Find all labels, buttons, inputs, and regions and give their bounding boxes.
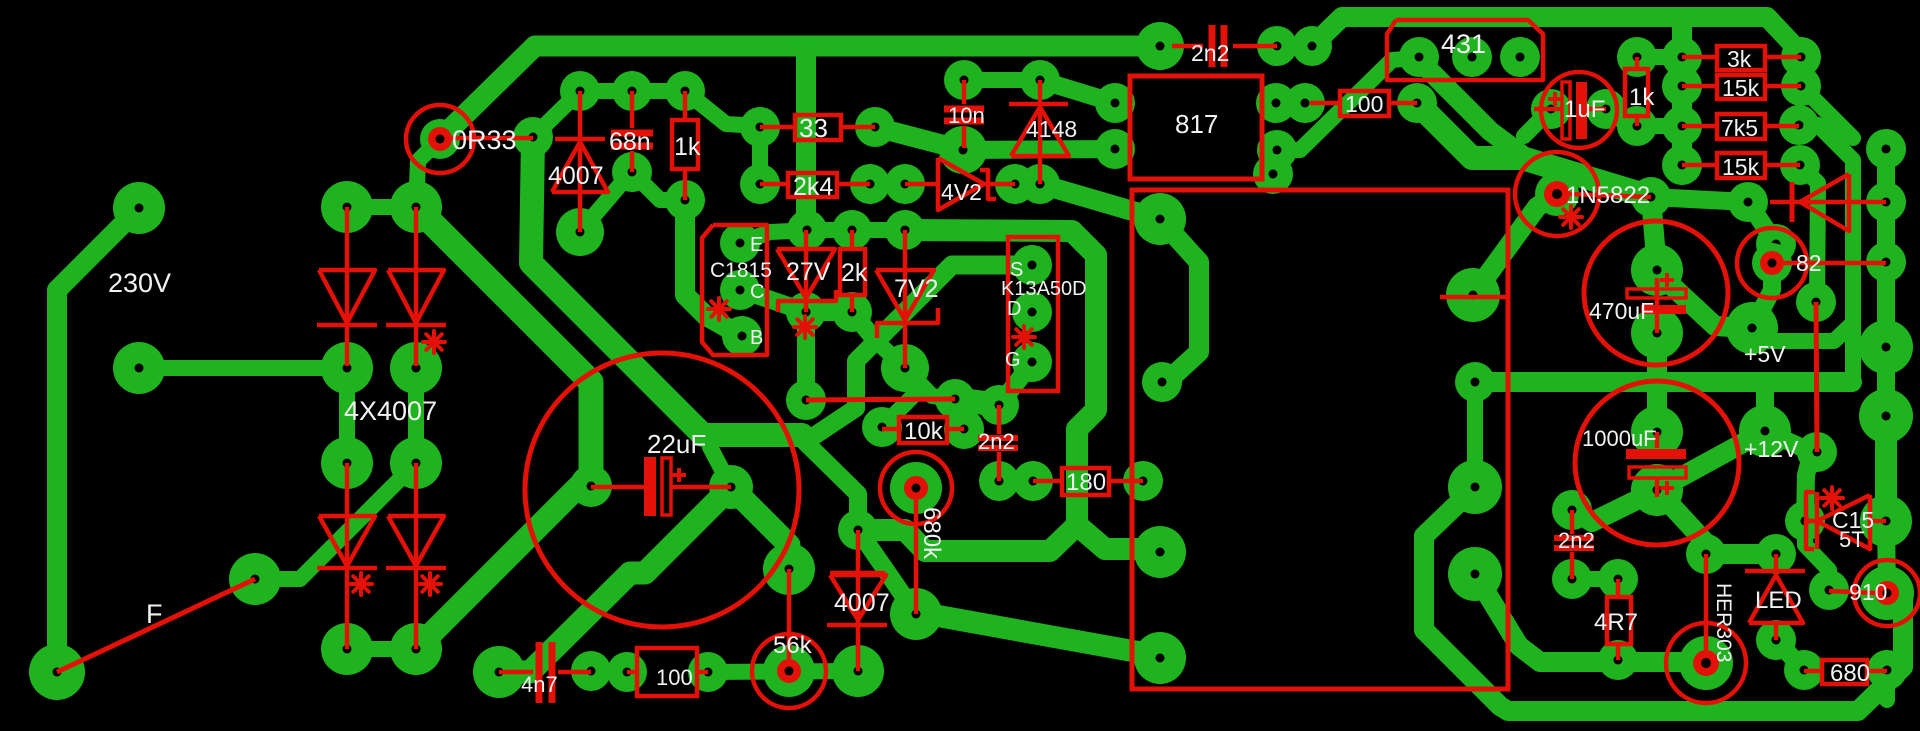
resistor 15k1 box bbox=[1717, 75, 1765, 99]
capacitor 1uF plates bbox=[1562, 82, 1570, 139]
svg-text:100: 100 bbox=[1345, 91, 1383, 117]
wire bridge mid pads verticals bbox=[339, 368, 355, 463]
pad +12V bbox=[1739, 405, 1791, 457]
capacitor 1000uF circle bbox=[1575, 381, 1739, 545]
thyristor C15 5T bbox=[1806, 492, 1814, 549]
resistor 1k box bbox=[672, 120, 698, 169]
svg-text:1000uF: 1000uF bbox=[1582, 426, 1657, 451]
pad bridge CL bbox=[321, 437, 373, 489]
wire 1k bottom feed to B bbox=[685, 200, 742, 336]
diode 4148 bbox=[1038, 80, 1043, 184]
pad 680 right bbox=[1867, 650, 1907, 690]
regulator 431 box bbox=[1387, 20, 1543, 80]
pad 10n bottom bbox=[939, 126, 987, 174]
pad 230V-2 bbox=[113, 342, 165, 394]
wire cluster to K13A50D G bbox=[999, 362, 1032, 405]
wire C1815 C to zener row bbox=[742, 290, 806, 312]
pad cluster a bbox=[935, 379, 975, 419]
pad 817 pin3 bbox=[1257, 130, 1297, 170]
svg-text:4V2: 4V2 bbox=[941, 179, 982, 205]
pad 4V2 left bbox=[885, 164, 925, 204]
pad 1k bottom bbox=[665, 180, 705, 220]
pad 4007b top bbox=[838, 510, 878, 550]
wire junction left branch bbox=[858, 525, 1077, 551]
pad 431-2 bbox=[1452, 37, 1492, 77]
pad C1815 B bbox=[722, 316, 762, 356]
wire node to DG2 horizontal bbox=[808, 341, 876, 440]
svg-text:2n2: 2n2 bbox=[1191, 40, 1229, 66]
wire pad pair 2n2 right bbox=[1277, 38, 1312, 54]
resistor 100b box bbox=[637, 648, 697, 696]
pad 0R33 via bbox=[420, 119, 460, 159]
svg-text:910: 910 bbox=[1849, 579, 1887, 605]
pad bank L4 bbox=[1662, 145, 1702, 185]
pad 82 top bbox=[1756, 224, 1796, 264]
svg-text:680: 680 bbox=[1830, 660, 1870, 687]
capacitor 2n2b symbol bbox=[997, 405, 1002, 434]
wire 1000uF- to +12 pad bbox=[1657, 431, 1765, 490]
pad 2n2b bottom bbox=[979, 461, 1019, 501]
pad 27V bottom bbox=[786, 292, 826, 332]
wire 22uF right V left branch bbox=[499, 487, 731, 672]
wire top rail right section bbox=[1312, 17, 1801, 86]
pad jumper left bbox=[786, 380, 826, 420]
svg-text:33: 33 bbox=[799, 113, 828, 143]
pad mains gnd bbox=[29, 644, 85, 700]
pad row230 c bbox=[885, 210, 925, 250]
pad 817 pin2 bbox=[1095, 129, 1135, 169]
pad bank R4 bbox=[1780, 145, 1820, 185]
wire 1N5822 pad to 82 top bbox=[1651, 197, 1748, 202]
pad 431-1 bbox=[1399, 37, 1439, 77]
capacitor 470uF plates bbox=[1655, 278, 1660, 305]
wire 1k2 top bar bbox=[1637, 49, 1682, 65]
wire zener row bar bbox=[806, 303, 852, 321]
capacitor 68n symbol bbox=[611, 130, 653, 137]
wire zener row to 806-400 bbox=[797, 312, 815, 400]
pad 33 left bbox=[740, 107, 780, 147]
wire riser 470uF- to 1000uF+ bbox=[1647, 333, 1667, 432]
svg-text:180: 180 bbox=[1066, 469, 1106, 496]
jumper silk line bbox=[806, 399, 955, 400]
diode bridge 4X4007 D3 bbox=[345, 463, 350, 649]
pad C1815 E bbox=[720, 223, 760, 263]
wire right col to 910 bbox=[1886, 521, 1887, 593]
capacitor 22uF circle bbox=[525, 353, 799, 627]
svg-text:68n: 68n bbox=[609, 128, 651, 156]
jumper silk right bbox=[1816, 302, 1817, 452]
wire C15 left to 910 left bbox=[1805, 521, 1829, 590]
pad 22uF plus bbox=[709, 465, 753, 509]
pad xfmr pin4 bbox=[1134, 632, 1186, 684]
wire pad 533 up to 580 row bbox=[533, 91, 580, 137]
wire right column lower bbox=[1875, 416, 1897, 521]
svg-text:B: B bbox=[750, 327, 763, 349]
wire 817 right y150 jog bbox=[1277, 58, 1417, 150]
pad 4R7 top bbox=[1598, 559, 1638, 599]
wire P1 diagonal to 22uF left pad bbox=[416, 207, 591, 486]
pad 10k left bbox=[862, 407, 902, 447]
pad bank R3 bbox=[1779, 105, 1819, 145]
wire riser +12 pad bbox=[1756, 385, 1774, 431]
diode 1N5822 circle bbox=[1515, 152, 1599, 236]
pad K13A50D G bbox=[1012, 342, 1052, 382]
svg-text:HER303: HER303 bbox=[1712, 583, 1735, 662]
asterisk C1815 bbox=[708, 307, 730, 311]
asterisk D2 bbox=[423, 340, 445, 344]
pad bank R1 bbox=[1781, 37, 1821, 77]
asterisk D3 bbox=[350, 582, 372, 586]
svg-text:7V2: 7V2 bbox=[894, 275, 938, 303]
pad 68n top bbox=[612, 71, 652, 111]
svg-text:10k: 10k bbox=[904, 418, 944, 445]
svg-text:470uF: 470uF bbox=[1589, 298, 1654, 324]
wire 680 right down to rail bbox=[1879, 670, 1895, 700]
pad 4007a bottom bbox=[556, 208, 604, 256]
pad 4148 top bbox=[1020, 60, 1060, 100]
wire bridge bottom pads bar bbox=[347, 641, 416, 657]
wire 1uF right to 1k2 bottom bbox=[1606, 109, 1637, 126]
wire +12 pad to C15 left bbox=[1765, 431, 1812, 521]
pad 680k top bbox=[890, 462, 942, 514]
pad fuse bbox=[229, 553, 281, 605]
svg-text:E: E bbox=[750, 234, 763, 256]
pad 4007b bottom bbox=[832, 645, 884, 697]
pad 4148 bottom bbox=[1020, 164, 1060, 204]
wire pin7 to output branch bbox=[1475, 574, 1700, 662]
svg-text:2n2: 2n2 bbox=[978, 429, 1015, 454]
wire pin6 to bottom rail bbox=[1424, 487, 1903, 711]
wire 817 right pads bar1 bbox=[1276, 95, 1305, 111]
resistor 10k box bbox=[899, 417, 947, 443]
svg-text:C: C bbox=[750, 281, 764, 303]
pad colR 1 bbox=[1866, 129, 1906, 169]
wire top AC rail to 0R33 bbox=[440, 46, 1160, 139]
svg-text:4n7: 4n7 bbox=[521, 672, 558, 697]
wire row230 to junction vertical bbox=[905, 230, 1096, 525]
pad LED top bbox=[1756, 534, 1796, 574]
svg-text:4007: 4007 bbox=[834, 589, 890, 617]
pad 1uF right bbox=[1586, 89, 1626, 129]
capacitor 2n2c symbol bbox=[1570, 510, 1575, 534]
pad 470uF minus bbox=[1631, 307, 1683, 359]
pad 56k top bbox=[763, 543, 815, 595]
resistor 33 box bbox=[795, 115, 841, 140]
wire 82 chain bbox=[1748, 202, 1776, 330]
pad 680k bottom bbox=[890, 588, 942, 640]
zener 4V2 bbox=[905, 182, 938, 187]
wire 470uF+ to +5V pad bbox=[1657, 272, 1750, 328]
pad 180 right bbox=[1123, 461, 1163, 501]
pad 100a right bbox=[1397, 83, 1437, 123]
resistor 3k box bbox=[1717, 46, 1765, 70]
svg-text:15k: 15k bbox=[1722, 75, 1760, 101]
pad 230V-1 bbox=[113, 182, 165, 234]
pad 100b left bbox=[607, 652, 647, 692]
svg-text:817: 817 bbox=[1175, 109, 1218, 139]
pad 817 pin4 bbox=[1256, 83, 1296, 123]
diode LED bbox=[1774, 554, 1779, 571]
pad xfmr pin6 bbox=[1448, 460, 1502, 514]
pad 100a left bbox=[1285, 83, 1325, 123]
pad 4007a top bbox=[560, 71, 600, 111]
wire 4007b to 680k pad bbox=[858, 530, 916, 614]
resistor 910 circle bbox=[1854, 560, 1920, 626]
resistor 100a box bbox=[1340, 91, 1389, 116]
wire 760 pads vertical bbox=[752, 127, 768, 184]
wire 1000uF- to HER303 top bbox=[1657, 490, 1706, 554]
wire 3k-15k right pads bar bbox=[1793, 53, 1809, 86]
pad bridge TL bbox=[321, 181, 373, 233]
svg-text:LED: LED bbox=[1755, 587, 1802, 614]
wire 4148 to 817 pin bbox=[1040, 80, 1115, 103]
wire 4V2 pads to transformer pin1 bbox=[1040, 184, 1160, 219]
svg-text:1k: 1k bbox=[1629, 84, 1655, 111]
pad spare bbox=[1253, 154, 1293, 194]
svg-text:4R7: 4R7 bbox=[1594, 609, 1638, 636]
pad bank R2 bbox=[1781, 66, 1821, 106]
pad 4V2 right bbox=[995, 164, 1035, 204]
svg-text:F: F bbox=[146, 599, 163, 629]
pad row230 a bbox=[787, 210, 827, 250]
wire 10n bottom to 817 pin bbox=[963, 149, 1115, 150]
svg-text:7k5: 7k5 bbox=[1721, 115, 1758, 141]
pad bridge TR bbox=[390, 181, 442, 233]
pad 2n2c bottom bbox=[1552, 559, 1592, 599]
wire 230V second input horizontal bbox=[139, 360, 347, 376]
pad bank L2 bbox=[1662, 66, 1702, 106]
diode bridge 4X4007 D1 bbox=[345, 207, 350, 366]
svg-text:C1815: C1815 bbox=[710, 259, 772, 282]
capacitor 2n2a symbol bbox=[1172, 44, 1203, 49]
wire 15k2 chain down bbox=[1800, 165, 1818, 302]
pad jr top bbox=[1796, 282, 1836, 322]
resistor 2k4 box bbox=[788, 173, 837, 197]
diode 4007a bbox=[578, 91, 583, 232]
wire 15k1 to column bbox=[1801, 86, 1853, 138]
pad bridge MR bbox=[390, 342, 442, 394]
resistor 82 circle bbox=[1737, 228, 1807, 298]
pad bank L3 bbox=[1662, 106, 1702, 146]
resistor 4R7 box bbox=[1607, 597, 1631, 644]
pad bridge BR bbox=[390, 623, 442, 675]
zener 7V2 bbox=[903, 230, 908, 368]
wire 230V input diagonal+vertical bbox=[57, 208, 139, 660]
resistor 1k2 box bbox=[1625, 69, 1648, 116]
svg-text:2n2: 2n2 bbox=[1558, 528, 1595, 553]
pad 1k2 top bbox=[1617, 37, 1657, 77]
asterisk K13A50D bbox=[1013, 335, 1035, 339]
wire junction right branch bbox=[1077, 525, 1160, 552]
wire DG2 long ground diagonal bbox=[531, 137, 802, 435]
capacitor 22uF plates bbox=[644, 457, 656, 516]
pad +5V bbox=[1726, 302, 1778, 354]
svg-text:D: D bbox=[1007, 298, 1021, 320]
wire diagonal 431 pad down bbox=[1417, 58, 1522, 155]
pad 10n top bbox=[944, 60, 984, 100]
pad row230 b bbox=[832, 210, 872, 250]
wire 7V2 pad to node bbox=[876, 341, 905, 368]
pad 1000uF plus bbox=[1631, 406, 1683, 458]
pad 680 left bbox=[1784, 650, 1824, 690]
resistor 2k box bbox=[840, 249, 865, 295]
svg-text:1k: 1k bbox=[674, 133, 701, 161]
pad bridge BL bbox=[321, 623, 373, 675]
wire bridge D2 pad to 22uF left vertical bbox=[416, 474, 591, 649]
pad 4n7 right bbox=[571, 651, 611, 691]
svg-text:K13A50D: K13A50D bbox=[1001, 278, 1087, 300]
pad 1N5822 anode bbox=[1535, 172, 1579, 216]
svg-text:G: G bbox=[1005, 349, 1021, 371]
pad 4R7 bottom bbox=[1598, 640, 1638, 680]
pad bank L1 bbox=[1662, 37, 1702, 77]
pad 1uF left bbox=[1531, 89, 1571, 129]
wire LED bottom to 680 left bbox=[1776, 640, 1804, 670]
pad xfmr pin7 bbox=[1448, 547, 1502, 601]
wire 4n7 pads bar bbox=[591, 671, 627, 672]
wire 685 to 760 jog bbox=[685, 91, 760, 126]
svg-text:22uF: 22uF bbox=[647, 429, 706, 459]
wire 580-232 to 68n bottom bbox=[580, 172, 632, 232]
svg-text:2k: 2k bbox=[841, 259, 868, 287]
pad 431-3 bbox=[1500, 37, 1540, 77]
pad 2n2a right bbox=[1257, 26, 1297, 66]
wire S-pad chain to node bbox=[876, 265, 1032, 341]
svg-text:230V: 230V bbox=[108, 268, 171, 298]
optocoupler 817 box bbox=[1130, 76, 1262, 179]
pad 22uF minus bbox=[570, 465, 612, 507]
wire pad row y230 bbox=[740, 230, 812, 243]
resistor 7k5 box bbox=[1717, 114, 1765, 139]
pad 10k right bbox=[944, 409, 984, 449]
capacitor 4n7 symbol bbox=[499, 670, 533, 675]
wire 1000uF- to 2n2c top bbox=[1572, 490, 1657, 522]
zener 27V bbox=[804, 230, 809, 312]
wire 1N5822 pad to 470uF+ bbox=[1651, 197, 1657, 270]
svg-text:100: 100 bbox=[656, 665, 693, 690]
asterisk D4 bbox=[419, 582, 441, 586]
pad 2k4 left bbox=[740, 164, 780, 204]
pad C1815 C bbox=[720, 270, 760, 310]
pad 0R33 right bbox=[513, 117, 553, 157]
pad K13A50D S bbox=[1012, 245, 1052, 285]
pad n1 bbox=[1631, 177, 1671, 217]
svg-text:15k: 15k bbox=[1722, 154, 1760, 180]
resistor 680 box bbox=[1822, 660, 1867, 684]
pad 68n bottom bbox=[612, 152, 652, 192]
fuse 0R33 circle bbox=[406, 105, 474, 173]
svg-text:0R33: 0R33 bbox=[452, 125, 517, 155]
diode bridge 4X4007 D4 bbox=[414, 463, 419, 649]
pad 1k2 bottom bbox=[1617, 106, 1657, 146]
pad jr bottom bbox=[1797, 432, 1837, 472]
wire 180 pads bar bbox=[999, 473, 1033, 489]
pad bridge ML bbox=[321, 342, 373, 394]
pad n2 bbox=[1728, 182, 1768, 222]
wire 10n top bar bbox=[964, 72, 1040, 88]
resistor 680k circle bbox=[880, 452, 952, 524]
resistor 180 box bbox=[1062, 468, 1109, 495]
transistor C1815 outline bbox=[702, 225, 767, 355]
pad top rail bbox=[1292, 26, 1332, 66]
pad xfmr pin2 bbox=[1142, 362, 1182, 402]
svg-text:10n: 10n bbox=[948, 103, 985, 128]
wire HER303 top to LED top bbox=[1706, 544, 1776, 564]
diode 4007b bbox=[856, 530, 861, 671]
pad HER303 top bbox=[1686, 534, 1726, 574]
transformer box bbox=[1132, 190, 1508, 689]
wire F silk bbox=[57, 579, 255, 672]
resistor 56k circle bbox=[752, 634, 826, 708]
capacitor 1uF circle bbox=[1541, 72, 1617, 148]
pad C15 left bbox=[1785, 501, 1825, 541]
pad colR 4 bbox=[1859, 320, 1913, 374]
wire branch DG2 down to 4007b bbox=[800, 437, 858, 530]
diode HER303 circle bbox=[1666, 623, 1746, 703]
pad 7V2 bottom bbox=[881, 344, 929, 392]
wire big diagonal 100 to 1N5822 bbox=[1417, 103, 1651, 197]
diode top right bbox=[1790, 182, 1795, 222]
wire 7k5 chain to +5V bbox=[1799, 125, 1853, 382]
pad colR 3 bbox=[1866, 242, 1906, 282]
wire cluster bars bbox=[955, 399, 999, 405]
asterisk 1N5822 bbox=[1560, 215, 1582, 219]
wire 882 stub bbox=[882, 393, 916, 427]
pad xfmr pin1 bbox=[1134, 193, 1186, 245]
pad cluster b bbox=[979, 385, 1019, 425]
wire 68n bottom to 1k bottom bbox=[632, 172, 685, 200]
wire transformer right col bbox=[1467, 382, 1483, 487]
pad xfmr pin5 bbox=[1446, 268, 1500, 322]
svg-text:27V: 27V bbox=[786, 258, 831, 286]
pad 82 left bbox=[1752, 243, 1792, 283]
wire 100 to 56k to 4007b row bbox=[708, 671, 858, 672]
pad colR 5 bbox=[1859, 389, 1913, 443]
pad 470uF plus bbox=[1631, 244, 1683, 296]
svg-text:+5V: +5V bbox=[1744, 341, 1786, 367]
wire 7V2 pad to cluster bbox=[905, 368, 955, 399]
pad 910 right bbox=[1860, 566, 1914, 620]
svg-text:4X4007: 4X4007 bbox=[344, 396, 437, 426]
wire secondary rail y382 bbox=[1475, 372, 1852, 392]
wire pin5 to 1N5822 bbox=[1473, 196, 1553, 295]
wire transformer pin1 to pin2 bbox=[1160, 219, 1199, 385]
svg-text:680k: 680k bbox=[918, 507, 945, 560]
wire resistor bank left column bbox=[1672, 17, 1692, 165]
wire vertical branch x=806 bbox=[796, 46, 816, 230]
wire bridge top pads bar bbox=[347, 199, 416, 215]
svg-text:4148: 4148 bbox=[1026, 116, 1077, 142]
wire column branch to +5V bbox=[1752, 323, 1853, 341]
wire 22uF right V right branch bbox=[731, 487, 789, 569]
wire 1uF left pad diagonal bbox=[1524, 109, 1551, 136]
wire right column x1886 bbox=[1877, 149, 1895, 521]
diode bridge 4X4007 D2 bbox=[414, 207, 419, 366]
pad xfmr pin3 bbox=[1134, 526, 1186, 578]
pad C15 right bbox=[1860, 495, 1912, 547]
pad 100b right bbox=[688, 652, 728, 692]
pad 2k4 right bbox=[850, 164, 890, 204]
pad 817 pin1 bbox=[1095, 83, 1135, 123]
pad HER303 bottom bbox=[1679, 636, 1733, 690]
pad 2n2c top bbox=[1552, 490, 1592, 530]
svg-text:2k4: 2k4 bbox=[793, 173, 833, 201]
pad bridge CR bbox=[390, 437, 442, 489]
capacitor 470uF circle bbox=[1584, 221, 1728, 365]
svg-text:1N5822: 1N5822 bbox=[1566, 182, 1650, 209]
mosfet K13A50D box bbox=[1008, 237, 1058, 391]
pad 2k bottom bbox=[832, 292, 872, 332]
